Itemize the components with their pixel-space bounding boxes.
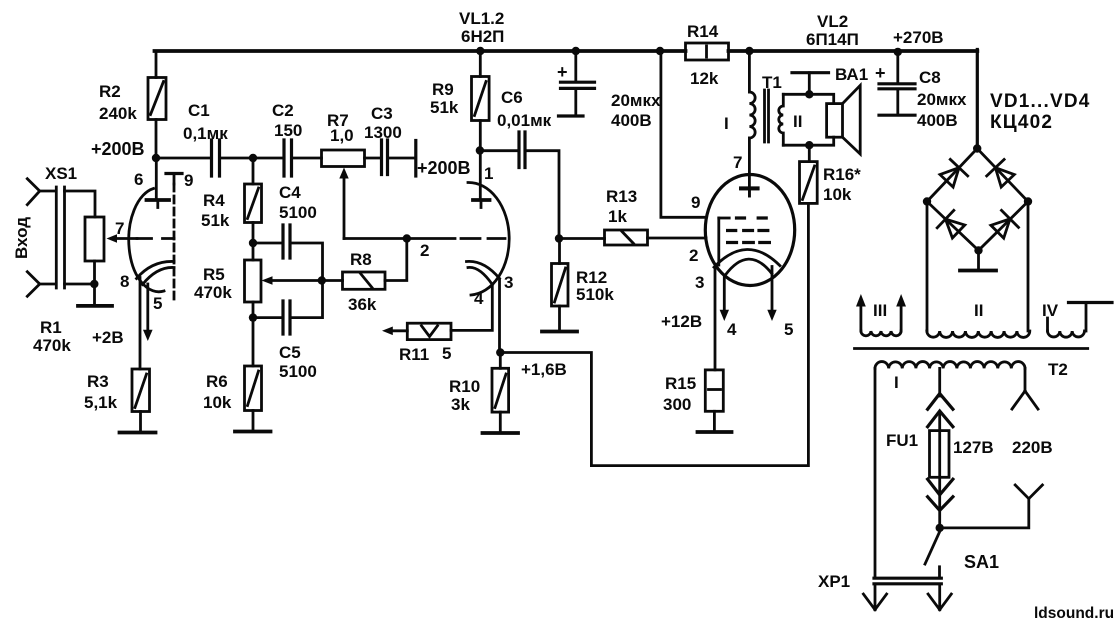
svg-text:R2: R2 — [99, 82, 121, 101]
svg-text:C6: C6 — [501, 88, 523, 107]
svg-text:R13: R13 — [606, 187, 637, 206]
svg-text:C1: C1 — [188, 101, 210, 120]
svg-text:FU1: FU1 — [886, 431, 918, 450]
svg-text:0,1мк: 0,1мк — [183, 124, 228, 143]
svg-text:7: 7 — [115, 219, 124, 238]
svg-text:VL2: VL2 — [817, 12, 848, 31]
svg-text:400B: 400B — [611, 111, 652, 130]
svg-text:C8: C8 — [919, 68, 941, 87]
svg-text:8: 8 — [120, 272, 129, 291]
svg-text:150: 150 — [274, 121, 302, 140]
svg-text:ВА1: ВА1 — [835, 65, 868, 84]
svg-text:IV: IV — [1042, 301, 1059, 320]
svg-text:+12B: +12B — [661, 312, 702, 331]
svg-text:0,01мк: 0,01мк — [497, 111, 552, 130]
svg-text:R5: R5 — [203, 265, 225, 284]
svg-text:51k: 51k — [201, 211, 230, 230]
svg-text:1300: 1300 — [364, 123, 402, 142]
svg-text:2: 2 — [420, 241, 429, 260]
svg-text:+1,6B: +1,6B — [521, 360, 567, 379]
svg-text:III: III — [873, 301, 887, 320]
svg-text:R3: R3 — [87, 372, 109, 391]
svg-text:+270B: +270B — [893, 28, 944, 47]
svg-text:400B: 400B — [917, 111, 958, 130]
svg-text:1k: 1k — [608, 207, 627, 226]
svg-text:R14: R14 — [687, 22, 719, 41]
svg-text:R1: R1 — [40, 318, 62, 337]
svg-text:T1: T1 — [762, 73, 782, 92]
svg-text:II: II — [793, 112, 802, 131]
svg-text:20мкх: 20мкх — [917, 90, 967, 109]
svg-text:240k: 240k — [99, 104, 137, 123]
svg-text:R15: R15 — [665, 374, 696, 393]
svg-text:510k: 510k — [576, 285, 614, 304]
svg-text:470k: 470k — [33, 336, 71, 355]
svg-text:10k: 10k — [823, 185, 852, 204]
svg-text:C4: C4 — [279, 183, 301, 202]
svg-text:20мкх: 20мкх — [611, 91, 661, 110]
svg-text:+200B: +200B — [417, 158, 471, 178]
svg-text:+: + — [875, 63, 886, 83]
svg-text:6: 6 — [134, 170, 143, 189]
svg-text:II: II — [974, 301, 983, 320]
svg-text:6Н2П: 6Н2П — [461, 27, 504, 46]
svg-text:C2: C2 — [272, 101, 294, 120]
svg-text:6П14П: 6П14П — [806, 30, 859, 49]
svg-text:+: + — [557, 62, 568, 82]
svg-text:I: I — [894, 373, 899, 392]
svg-text:470k: 470k — [194, 283, 232, 302]
svg-text:C3: C3 — [371, 104, 393, 123]
svg-text:300: 300 — [663, 395, 691, 414]
svg-text:Вход: Вход — [12, 217, 31, 259]
svg-text:36k: 36k — [348, 295, 377, 314]
svg-text:+200B: +200B — [91, 139, 145, 159]
svg-text:R9: R9 — [432, 80, 454, 99]
svg-text:3: 3 — [504, 273, 513, 292]
svg-text:7: 7 — [733, 153, 742, 172]
svg-text:R8: R8 — [350, 250, 372, 269]
svg-text:КЦ402: КЦ402 — [990, 112, 1053, 133]
svg-text:4: 4 — [474, 289, 484, 308]
svg-text:5,1k: 5,1k — [84, 393, 118, 412]
svg-text:1: 1 — [484, 164, 493, 183]
svg-text:+2B: +2B — [92, 328, 124, 347]
svg-text:VL1.2: VL1.2 — [459, 9, 504, 28]
svg-text:R4: R4 — [203, 191, 225, 210]
svg-text:9: 9 — [184, 171, 193, 190]
svg-text:5100: 5100 — [279, 362, 317, 381]
svg-text:3k: 3k — [451, 395, 470, 414]
svg-text:XS1: XS1 — [45, 164, 77, 183]
svg-text:5: 5 — [442, 344, 451, 363]
svg-text:5: 5 — [153, 294, 162, 313]
svg-text:VD1...VD4: VD1...VD4 — [990, 91, 1091, 112]
svg-text:XP1: XP1 — [818, 572, 850, 591]
svg-text:5: 5 — [784, 320, 793, 339]
svg-text:3: 3 — [695, 273, 704, 292]
svg-text:1,0: 1,0 — [330, 126, 354, 145]
svg-text:10k: 10k — [203, 393, 232, 412]
svg-text:51k: 51k — [430, 98, 459, 117]
svg-text:R16*: R16* — [823, 165, 861, 184]
svg-text:C5: C5 — [279, 343, 301, 362]
svg-text:T2: T2 — [1048, 360, 1068, 379]
svg-text:220B: 220B — [1012, 438, 1053, 457]
svg-text:SA1: SA1 — [964, 552, 999, 572]
svg-text:12k: 12k — [690, 69, 719, 88]
svg-text:2: 2 — [689, 246, 698, 265]
svg-text:4: 4 — [727, 320, 737, 339]
svg-text:R6: R6 — [206, 372, 228, 391]
svg-text:R11: R11 — [399, 345, 429, 364]
svg-text:127B: 127B — [953, 438, 994, 457]
svg-text:I: I — [724, 114, 729, 133]
svg-text:5100: 5100 — [279, 203, 317, 222]
svg-text:ldsound.ru: ldsound.ru — [1034, 605, 1114, 622]
svg-text:R10: R10 — [449, 377, 480, 396]
svg-text:9: 9 — [691, 193, 700, 212]
